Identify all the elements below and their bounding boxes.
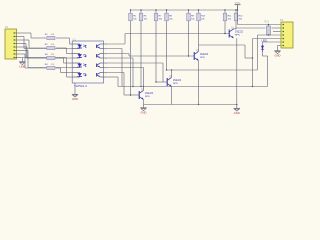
svg-text:4: 4 bbox=[69, 58, 70, 60]
svg-text:NPN: NPN bbox=[145, 96, 150, 98]
svg-text:9: 9 bbox=[105, 77, 106, 79]
svg-text:2N2222: 2N2222 bbox=[173, 80, 182, 82]
svg-text:GND: GND bbox=[141, 110, 147, 114]
svg-text:6: 6 bbox=[69, 68, 70, 70]
svg-text:2N2222: 2N2222 bbox=[145, 93, 154, 95]
svg-text:2N2222: 2N2222 bbox=[200, 54, 209, 56]
svg-text:GND: GND bbox=[234, 111, 240, 115]
svg-text:NPN: NPN bbox=[200, 57, 205, 59]
svg-text:3: 3 bbox=[69, 54, 70, 56]
svg-text:LINE: LINE bbox=[19, 64, 25, 68]
svg-text:VCC: VCC bbox=[235, 1, 241, 5]
svg-text:12: 12 bbox=[105, 63, 107, 65]
svg-text:R13: R13 bbox=[265, 21, 270, 24]
svg-text:7: 7 bbox=[69, 73, 70, 75]
svg-text:2: 2 bbox=[69, 49, 70, 51]
svg-text:8: 8 bbox=[69, 77, 70, 79]
svg-text:11: 11 bbox=[105, 68, 107, 70]
svg-text:2N2222: 2N2222 bbox=[235, 32, 244, 34]
svg-text:16: 16 bbox=[105, 44, 107, 46]
svg-text:15: 15 bbox=[105, 49, 107, 51]
svg-text:14: 14 bbox=[105, 54, 107, 56]
svg-text:TLP521-4: TLP521-4 bbox=[74, 84, 87, 88]
svg-text:1: 1 bbox=[69, 44, 70, 46]
svg-text:5: 5 bbox=[69, 63, 70, 65]
svg-text:13: 13 bbox=[105, 58, 107, 60]
svg-text:NPN: NPN bbox=[235, 35, 240, 37]
svg-text:NPN: NPN bbox=[173, 83, 178, 85]
svg-text:10: 10 bbox=[105, 73, 107, 75]
svg-text:GND: GND bbox=[72, 97, 78, 101]
svg-text:GND: GND bbox=[275, 53, 281, 57]
